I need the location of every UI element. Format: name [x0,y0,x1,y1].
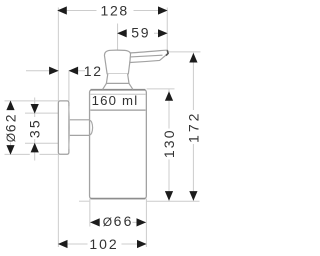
wire: dim line d62 [10,101,12,154]
text mask 35 [28,117,41,139]
wire: dim line 128 [58,10,167,12]
wire: spout top extension line [168,51,200,53]
text mask d62 [4,110,17,143]
wire: bottle top extension line [147,88,175,90]
wire: dim line 12 leader right [69,70,85,72]
wire: dim line 102 [58,243,146,245]
svg-text:Ø: Ø [103,215,112,229]
svg-text:59: 59 [131,24,150,40]
wire: wall extension line lower [57,154,59,247]
pump neck ring [106,74,129,84]
arrow 35 top [31,104,39,114]
svg-text:66: 66 [114,213,134,229]
arrow 59 right [158,29,168,37]
pump lever tip face [166,50,168,55]
arrow d62 bottom [6,145,14,155]
wire: bottle right bottom extension line [145,199,147,247]
arrow 12 right [69,67,79,75]
wire: spout tip extension line [166,8,168,51]
bottle body [90,90,147,199]
arrow 12 left [49,67,59,75]
arrow 172 top [189,53,197,63]
arrow 35 bottom [31,143,39,153]
wire: boss bottom extension line [25,142,58,144]
arm end cap arc [90,120,93,135]
svg-text:12: 12 [84,63,103,79]
bottle shoulder line [90,93,145,95]
svg-text:130: 130 [161,128,177,158]
wire: plate bottom extension line [5,153,59,155]
wire: boss top extension line [25,112,58,114]
arrow 128 right [158,6,168,14]
arrow 59 left [117,29,127,37]
arrow 102 right [137,240,147,248]
arrow 130 bottom [165,191,173,201]
text mask 128 [97,3,134,17]
text mask 172 [187,110,200,144]
svg-text:Ø: Ø [4,133,18,142]
wire: wall extension line upper [57,8,59,101]
arm top edge [69,119,90,121]
wall plate [58,101,69,154]
bottle top edge [91,89,146,91]
wire: dim line d66 [90,221,146,223]
svg-text:172: 172 [185,111,201,143]
svg-text:102: 102 [89,236,118,252]
svg-text:160 ml: 160 ml [92,93,139,108]
wire: dim line 130 [168,90,170,201]
wire: base extension line left [79,200,89,202]
svg-text:35: 35 [27,118,43,138]
text mask 130 [163,129,176,160]
wire: dim line 59 [118,32,168,34]
arrow d62 top [6,101,14,111]
wire: dim line 172 [192,53,194,201]
wire: plate front extension line [68,71,70,101]
wire: base extension line right [147,200,200,202]
wire: pump axis extension line [117,24,119,51]
plate front bulge [68,106,71,149]
pump collar [103,83,133,89]
text mask 59 [127,26,154,40]
bottle bottom edge [91,198,146,200]
text mask 102 [88,237,122,251]
wire: dim line 35 [34,98,36,161]
wire: dim line 12 leader left [26,70,58,72]
wire: bottle left bottom extension line [89,199,91,227]
pump cap U1 [104,50,130,74]
halo gap on plate bottom extension line [30,153,40,156]
arrow 172 bottom [189,191,197,201]
pump lever spout outline [130,50,168,62]
bottle label line [90,109,145,111]
text mask d66 [100,214,133,229]
svg-text:128: 128 [100,2,128,18]
arrow 128 left [57,6,67,14]
arm bottom edge [69,134,90,136]
arrow 102 left [58,240,68,248]
wire: plate top extension line [5,100,59,102]
svg-text:62: 62 [3,112,19,132]
arrow d66 left [90,218,100,226]
arrow d66 right [137,218,147,226]
pump lever mid line [131,55,163,57]
arrow 130 top [165,91,173,101]
